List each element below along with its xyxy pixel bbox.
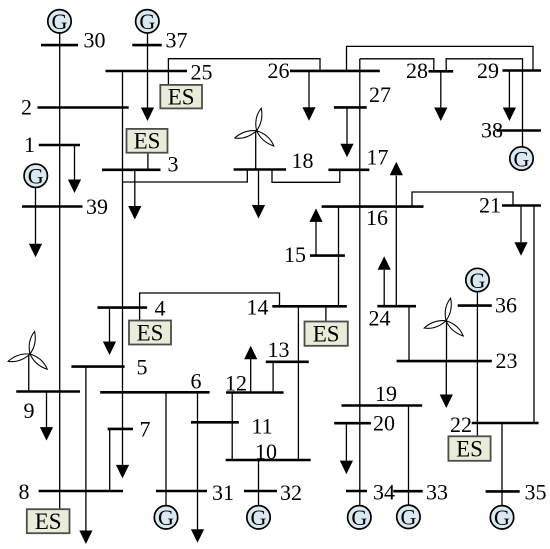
generator G34 [348,505,371,530]
wire ES stub at bus 14 [325,306,327,321]
wire line 29-38 and G38 [522,71,524,147]
wire G36 to bus 36 to bus 23 to bus 22 to ES [476,292,478,436]
wire line 21-22 [533,206,535,424]
svg-text:G: G [470,268,486,293]
svg-text:2: 2 [21,95,32,120]
svg-text:19: 19 [375,381,397,406]
energy storage ES8 [27,509,70,534]
flow arrow bus 24 to 17 [390,162,403,176]
generator G35 [490,505,513,530]
wire load stub bus 20 [345,423,347,461]
bus 32 [244,490,277,493]
load arrow bus 26 [302,107,315,121]
svg-text:25: 25 [191,60,213,85]
bus 5 [71,365,124,368]
svg-text:ES: ES [35,509,62,534]
wire line 26-28 [360,59,434,72]
svg-text:26: 26 [268,58,290,83]
bus 27 [334,106,367,109]
wire load stub bus 29 [508,71,510,108]
bus 35 [486,490,520,493]
svg-text:10: 10 [255,439,277,464]
wire line 22-35 and G35 [501,423,503,505]
svg-text:33: 33 [426,480,448,505]
wire load stub bus 1 [74,145,76,180]
svg-text:16: 16 [366,205,388,230]
svg-text:G: G [494,505,510,530]
wire line 13-12 [272,362,274,393]
wire load stub bus 26 [308,71,310,108]
energy storage ES3 [127,129,168,154]
svg-text:ES: ES [134,129,161,154]
bus 30 [41,44,78,47]
wire load stub bus 4 [109,308,111,342]
wire line 3-18 [123,170,248,183]
load arrow bus 21 [514,242,527,256]
wire line 26-29 [347,46,534,71]
flow arrow into bus 17 [340,144,353,158]
bus 22 [472,422,539,425]
svg-text:G: G [28,164,44,189]
wire line 6-11-31 load [197,392,199,529]
bus 17 [328,169,369,172]
wire line 5-8 load [85,367,87,531]
svg-text:21: 21 [479,193,501,218]
bus 19 [342,404,423,407]
svg-text:G: G [514,146,530,171]
svg-text:34: 34 [373,480,395,505]
svg-text:30: 30 [84,28,106,53]
svg-text:36: 36 [495,293,517,318]
wire load stub bus 9 [46,392,48,428]
load arrow bus 28 [434,108,447,122]
wire line 19-33 and G33 [408,406,410,505]
energy storage ES4 [129,320,171,345]
svg-text:12: 12 [225,371,247,396]
svg-text:32: 32 [280,480,302,505]
svg-text:6: 6 [191,369,202,394]
bus 6 [100,391,209,394]
svg-text:G: G [251,505,267,530]
wire G39 to bus 39 load [35,188,37,244]
load arrow bus 7 [116,465,129,479]
bus 33 [393,490,423,493]
wire line 25-26 [168,59,320,85]
load arrow bus 9 [40,427,53,441]
svg-text:22: 22 [450,412,472,437]
wire turbine pole at bus 9 [28,354,30,392]
bus 34 [346,490,367,493]
bus 12 [226,391,284,394]
wire line 18-17 [272,170,340,183]
svg-text:4: 4 [155,296,166,321]
bus 28 [429,70,454,73]
svg-text:18: 18 [292,148,314,173]
wire line 14-13-10 [297,306,299,460]
bus 13 [266,360,309,363]
bus 36 [458,304,492,307]
wire line 12-11-10 [231,393,233,461]
bus 3 [102,169,161,172]
wire line 16-24 arrow stub [395,176,397,307]
wire load stub bus 21 [520,206,522,243]
svg-text:31: 31 [212,480,234,505]
flow arrow bus 12 up [244,346,257,360]
load arrow bus 29 [503,108,516,122]
svg-text:3: 3 [168,152,179,177]
flow arrow bus 24 up [378,256,391,270]
svg-text:28: 28 [406,58,428,83]
bus 9 [16,390,80,393]
generator G38 [510,146,533,171]
bus 31 [156,490,207,493]
generator G36 [466,268,489,293]
bus 39 [22,205,83,208]
svg-text:37: 37 [166,28,188,53]
svg-text:ES: ES [313,322,340,347]
energy storage ES22 [448,436,490,461]
svg-text:8: 8 [19,479,30,504]
svg-text:23: 23 [496,348,518,373]
wind turbine at bus 9 [7,331,48,372]
svg-text:7: 7 [140,417,151,442]
svg-text:ES: ES [137,320,164,345]
svg-text:17: 17 [367,145,389,170]
wire line 4-14 and ES stub [140,293,280,321]
svg-text:ES: ES [456,436,483,461]
svg-text:20: 20 [373,411,395,436]
svg-text:39: 39 [86,194,108,219]
generator G37 [136,9,159,34]
wire load stub bus 28 [440,71,442,107]
bus 18 [234,168,286,171]
svg-text:13: 13 [268,337,290,362]
svg-text:G: G [52,9,68,34]
flow arrow bus 15 to 16 [309,208,322,222]
wire arrow stub bus 27 to 17 [346,107,348,143]
bus 26 [290,70,380,73]
load arrow bus 18 [252,205,265,219]
bus 15 [310,254,345,257]
bus 4 [98,306,148,309]
svg-text:29: 29 [477,58,499,83]
load arrow bus 25 [141,108,154,122]
wire line 10-32 and G32 [258,460,260,505]
wire bus 25 to bus 2 to bus 3 to bus 4 to bus 5 to bus 7 [122,71,124,465]
bus 29 [502,69,541,72]
svg-text:15: 15 [284,242,306,267]
load arrow bus 20 [340,461,353,475]
load arrow bus 8 [79,531,92,545]
load arrow bus 1 [68,180,81,194]
svg-text:G: G [351,505,367,530]
wire line 16-15-14 [338,207,340,307]
load arrow bus 3 [128,206,141,220]
bus 37 [132,44,162,47]
wire line 24-23 [408,306,410,361]
svg-text:ES: ES [168,85,195,110]
wire line 7-8 [109,429,111,491]
generator G31 [154,505,177,530]
bus 1 [39,144,80,147]
svg-text:27: 27 [369,82,391,107]
bus 21 [502,204,541,207]
svg-text:11: 11 [252,414,273,439]
svg-text:1: 1 [24,132,35,157]
bus 24 [377,305,416,308]
wire turbine pole at bus 23 [446,321,448,361]
wire arrow stub bus 12 to 13 [250,359,252,393]
bus 2 [38,106,129,109]
generator G39 [24,164,47,189]
bus 10 [226,459,311,462]
bus 23 [397,360,492,363]
wire line 28-29 [446,59,522,72]
bus 14 [272,305,347,308]
energy storage ES25 [160,85,202,110]
wire G30 to bus 30 to bus 2 to bus 1 to bus 39 to bus 9 to bus 8 to ES [59,33,61,509]
svg-text:G: G [139,9,155,34]
generator G32 [247,505,270,530]
wire line 6-31 and G31 [165,392,167,505]
bus 20 [334,422,371,425]
wire line 26-27-17-16-19-20-34 and G34 [359,59,361,506]
bus 8 [39,490,123,493]
wire load stub bus 18 [258,170,260,206]
load arrow bus 39 [29,244,42,257]
wind turbine at bus 18 [234,108,275,149]
load arrow bus 4 [103,342,116,356]
energy storage ES14 [305,322,348,347]
bus 25 [106,70,188,73]
wire G37 to bus 37 to bus 25 [147,33,149,108]
wire line 16-21 [412,192,513,207]
svg-text:24: 24 [369,306,391,331]
wire load stub bus 23 [445,361,447,395]
generator G30 [48,9,71,34]
bus 7 [108,428,133,431]
wire arrow stub bus 15 to 16 [315,221,317,256]
wire load stub bus 3 [134,170,136,206]
generator G33 [397,505,420,530]
svg-text:5: 5 [137,355,148,380]
wire turbine pole at bus 18 [255,131,257,170]
svg-text:14: 14 [247,295,269,320]
wind turbine at bus 23 [423,298,464,339]
svg-text:9: 9 [24,398,35,423]
bus 11 [191,421,239,424]
svg-text:35: 35 [525,480,547,505]
bus 38 [496,129,541,132]
load arrow bus 23 [440,395,453,409]
bus 16 [322,205,424,208]
svg-text:G: G [158,505,174,530]
load arrow bus 31 [191,529,204,543]
svg-text:G: G [400,505,416,530]
wire arrow stub bus 24 to 16 [383,270,385,306]
wire ES stub at bus 3 [147,153,149,170]
svg-text:38: 38 [481,118,503,143]
